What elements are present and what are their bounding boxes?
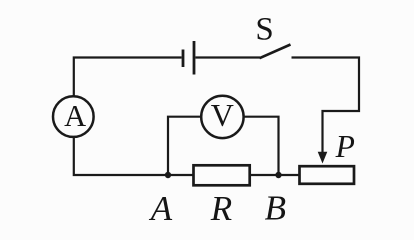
svg-text:A: A [149,189,173,228]
svg-text:A: A [64,99,86,133]
ammeter A1 circle [53,96,94,137]
resistor R box [194,165,250,185]
node A junction dot [165,172,171,178]
wire: node A up to voltmeter left [168,117,202,175]
svg-text:B: B [265,188,286,227]
svg-text:R: R [210,189,232,228]
wire: ammeter bottom to bottom-left corner to resistor R [74,137,193,176]
wire: voltmeter right down to node B [243,117,278,175]
wire: ammeter top to battery negative [74,58,182,97]
wire: switch contact to top-right corner down to wiper arm [292,58,360,155]
rheostat P box [300,166,355,184]
svg-text:P: P [335,129,355,164]
svg-text:S: S [255,12,273,48]
switch S blade [260,45,291,59]
battery cell [183,41,194,75]
wire: battery positive to switch [196,56,261,58]
svg-text:V: V [211,97,234,133]
node B junction dot [275,172,281,178]
voltmeter V1 circle [201,96,243,138]
wiper arrowhead [318,152,328,164]
wire: node B to rheostat P [250,174,300,176]
